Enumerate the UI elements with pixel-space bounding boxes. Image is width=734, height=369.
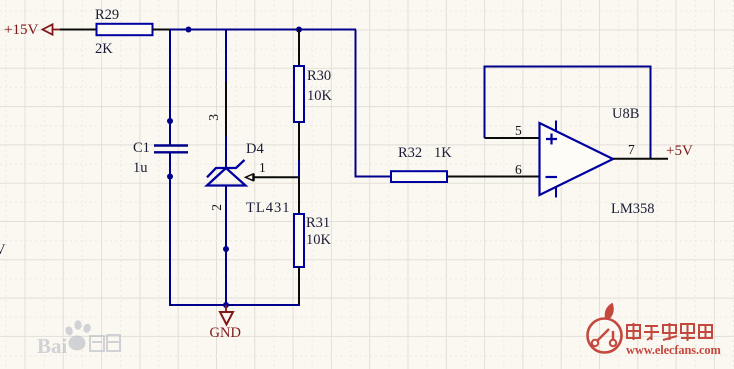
- pin C1 top: [169, 121, 171, 146]
- pin C1 bottom: [169, 152, 171, 177]
- node dot above C1: [167, 118, 173, 124]
- svg-text:R30: R30: [307, 68, 331, 84]
- resistor R30: [294, 66, 333, 122]
- pin 5 wire: [485, 137, 540, 139]
- wire pin2 to bottom bus: [225, 249, 227, 305]
- svg-text:+5V: +5V: [666, 143, 693, 159]
- svg-text:1: 1: [259, 160, 266, 175]
- junction dot: [186, 27, 192, 33]
- svg-text:10K: 10K: [307, 88, 333, 104]
- watermark elecfans text: [627, 323, 713, 341]
- wire +15V to R29: [60, 29, 97, 31]
- svg-text:R32: R32: [398, 145, 422, 161]
- feedback wire U8B: [485, 67, 651, 159]
- svg-text:D4: D4: [246, 141, 264, 157]
- svg-text:10K: 10K: [306, 232, 332, 248]
- svg-text:V: V: [0, 242, 6, 258]
- svg-text:U8B: U8B: [612, 106, 639, 122]
- resistor R32: [391, 145, 452, 182]
- TL431 D4 symbol: [207, 160, 246, 186]
- wire R29 to node: [153, 29, 171, 31]
- svg-text:1u: 1u: [133, 160, 148, 176]
- svg-text:TL431: TL431: [246, 200, 290, 216]
- op-amp U8B: [540, 106, 655, 217]
- pin 7 output wire: [613, 158, 668, 160]
- resistor R29: [95, 7, 153, 57]
- svg-text:Bai: Bai: [37, 334, 68, 358]
- wire C1 branch down: [169, 30, 171, 122]
- svg-text:2: 2: [209, 204, 224, 211]
- svg-text:www.elecfans.com: www.elecfans.com: [626, 343, 722, 357]
- svg-text:3: 3: [206, 114, 221, 121]
- ground GND: [210, 305, 241, 341]
- pin 3 wire of D4: [225, 30, 227, 83]
- wire pin1 to divider node: [253, 176, 299, 178]
- svg-text:6: 6: [515, 162, 522, 177]
- wire top bus to R32: [356, 30, 392, 177]
- node dot below C1: [167, 174, 173, 180]
- pin 2 wire of D4: [225, 186, 227, 250]
- resistor R31: [294, 214, 332, 267]
- wire R30 bottom to node: [298, 122, 300, 163]
- pin R30 top: [298, 30, 300, 67]
- svg-text:LM358: LM358: [611, 201, 655, 217]
- svg-text:R31: R31: [306, 215, 330, 231]
- watermark elecfans logo: [588, 304, 622, 353]
- wire C1 to bottom bus: [170, 177, 226, 306]
- watermark Baidu: [37, 320, 120, 358]
- node dot on pin2 net: [223, 246, 229, 252]
- pin R31 top: [298, 177, 300, 214]
- wire top bus: [169, 29, 356, 31]
- power port +15V: [4, 22, 61, 38]
- pin 1 arrow of D4: [246, 160, 266, 181]
- svg-text:1K: 1K: [434, 145, 452, 161]
- svg-text:+15V: +15V: [4, 22, 38, 38]
- wire R32 to pin 6: [447, 176, 540, 178]
- svg-text:7: 7: [628, 142, 635, 157]
- svg-text:2K: 2K: [95, 41, 113, 57]
- junction dot GND: [223, 302, 229, 308]
- svg-text:C1: C1: [133, 140, 150, 156]
- bottom bus wire: [226, 304, 300, 306]
- svg-text:GND: GND: [210, 325, 241, 341]
- pin R31 bottom: [298, 267, 300, 305]
- svg-text:R29: R29: [95, 7, 119, 23]
- junction dot at R30 branch: [296, 27, 302, 33]
- svg-text:5: 5: [515, 123, 522, 138]
- capacitor C1: [133, 140, 188, 176]
